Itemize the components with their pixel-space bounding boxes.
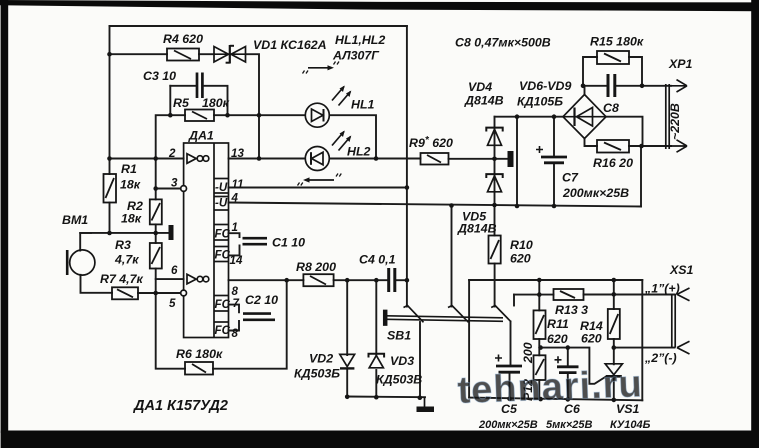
LED HL2 bbox=[305, 147, 329, 171]
wire R4 to VD1 bbox=[199, 53, 214, 55]
wire C1 lead pin14 bbox=[229, 246, 240, 256]
wire bridge left row bbox=[495, 116, 564, 118]
wire VS1 cathode to rail bbox=[613, 378, 615, 401]
wire VS1 gate run bbox=[541, 348, 606, 384]
svg-text:R13 3: R13 3 bbox=[555, 303, 588, 317]
wire +U vertical x407 bbox=[406, 26, 408, 307]
wire C1 lead pin1 bbox=[229, 233, 240, 237]
svg-text:4,7к: 4,7к bbox=[114, 253, 139, 267]
arrow HL1 emission 1 bbox=[332, 86, 345, 101]
resistor R12 bbox=[534, 355, 546, 380]
svg-text:R9* 620: R9* 620 bbox=[409, 135, 453, 150]
svg-text:VD3: VD3 bbox=[390, 354, 414, 368]
svg-text:-U: -U bbox=[215, 181, 228, 194]
wire left vertical to R1 bbox=[109, 26, 111, 174]
resistor R8 bbox=[303, 274, 333, 286]
wire vertical R5loop-pin2-pin3-R2 bbox=[156, 115, 171, 189]
wire VD1 right to corner bbox=[246, 54, 259, 158]
resistor R10 bbox=[489, 236, 501, 264]
capacitor C7 polarized bbox=[541, 157, 567, 163]
switch SB1 bar bbox=[384, 311, 503, 326]
wire R3 bottom / pin6 tap bbox=[155, 269, 157, 294]
wire R14 top lead bbox=[613, 280, 615, 309]
svg-text:~220В: ~220В bbox=[668, 103, 682, 140]
svg-text:„2”(-): „2”(-) bbox=[644, 351, 677, 365]
wire C8 row right bbox=[617, 85, 643, 87]
svg-text:С4 0,1: С4 0,1 bbox=[359, 253, 396, 267]
svg-text:620: 620 bbox=[581, 332, 602, 346]
wire bridge right corner down bbox=[606, 117, 643, 146]
connector XS1 bbox=[672, 288, 690, 354]
wire R9 right to terminator bbox=[449, 158, 508, 160]
wire R11 bottom R12 top bbox=[538, 339, 540, 355]
svg-text:„1”(+): „1”(+) bbox=[644, 282, 680, 296]
wire C6 top lead bbox=[567, 348, 569, 366]
svg-text:АЛ307Г: АЛ307Г bbox=[332, 49, 380, 63]
svg-text:HL2: HL2 bbox=[347, 145, 371, 159]
wire R16 right to XP1 pin2 bbox=[629, 145, 671, 147]
microphone BM1 bbox=[67, 250, 95, 275]
resistor R2 bbox=[150, 199, 162, 224]
plus sign C5 bbox=[495, 355, 502, 362]
svg-text:R16 20: R16 20 bbox=[593, 156, 633, 170]
wire R13 row stub left bbox=[513, 295, 515, 306]
wire R13 row bbox=[514, 294, 554, 296]
resistor R16 bbox=[597, 140, 629, 153]
diode VD3 bbox=[369, 354, 385, 368]
wire SB1 feed2 from bus bbox=[451, 206, 453, 307]
wire bridge top corner to C8 row bbox=[584, 86, 586, 95]
ground symbol bbox=[417, 397, 435, 412]
svg-text:3: 3 bbox=[171, 177, 178, 190]
resistor R3 bbox=[150, 243, 162, 269]
wire XP1 pin1 lead bbox=[642, 85, 671, 87]
wire R5 row left bbox=[170, 114, 185, 116]
svg-text:HL1: HL1 bbox=[351, 98, 375, 112]
capacitor C8 bbox=[608, 74, 615, 97]
wire R5 row right to HL1 row bbox=[214, 114, 305, 116]
switch SB1 blade 3 bbox=[491, 306, 511, 322]
svg-text:R10: R10 bbox=[510, 238, 533, 252]
svg-text:2: 2 bbox=[168, 147, 176, 160]
capacitor C6 polarized bbox=[557, 367, 579, 373]
wire SB1 contact1 output to rail bbox=[419, 322, 421, 398]
wire C4 right to vertical bbox=[397, 279, 407, 281]
wire vertical x517 bbox=[516, 117, 518, 206]
wire C2 lead pin7 bbox=[229, 305, 240, 313]
wire C3 top right bbox=[205, 86, 228, 115]
plus sign C6 bbox=[555, 356, 562, 363]
switch SB1 blade 2 bbox=[448, 306, 469, 323]
wire right vertical to rail bbox=[641, 280, 643, 400]
resistor R15 bbox=[597, 51, 629, 64]
svg-text:КД503В: КД503В bbox=[376, 373, 422, 387]
svg-text:tehnari.ru: tehnari.ru bbox=[457, 363, 644, 412]
svg-text:Д814В: Д814В bbox=[464, 94, 504, 108]
svg-text:180к: 180к bbox=[202, 96, 230, 110]
zener VD5 bbox=[486, 174, 502, 192]
capacitor C3 bbox=[197, 73, 202, 99]
svg-text:4: 4 bbox=[231, 192, 239, 205]
capacitor C1 bbox=[243, 238, 268, 244]
wire C7 bottom lead bbox=[553, 165, 555, 207]
svg-text:8: 8 bbox=[232, 327, 239, 340]
svg-text:HL1,HL2: HL1,HL2 bbox=[335, 33, 385, 47]
svg-text:VD4: VD4 bbox=[468, 80, 492, 94]
svg-text:FC: FC bbox=[215, 249, 231, 262]
wire R2 bottom to row bbox=[155, 224, 157, 243]
svg-text:14: 14 bbox=[230, 254, 243, 267]
svg-text:FC: FC bbox=[215, 298, 231, 311]
wire SB1 contact3 to C5 bbox=[510, 322, 512, 365]
frame top bbox=[0, 0, 759, 11]
resistor R11 bbox=[534, 310, 546, 339]
wire ground rail left bbox=[347, 396, 425, 399]
svg-text:620: 620 bbox=[510, 252, 531, 266]
wire R16 row from bridge bottom bbox=[585, 139, 598, 147]
wire C8 row left bbox=[583, 85, 607, 87]
wire VD3 column bottom bbox=[375, 370, 377, 397]
svg-text:7: 7 bbox=[233, 297, 240, 310]
wire pin11 row bbox=[229, 187, 407, 189]
svg-text:200: 200 bbox=[521, 342, 535, 364]
capacitor C4 bbox=[389, 268, 395, 292]
svg-text:R6 180к: R6 180к bbox=[176, 347, 223, 361]
wire VD2 column bottom bbox=[346, 370, 348, 397]
wire XS1 plus row bbox=[469, 279, 642, 281]
wire BM1 bottom lead bbox=[81, 275, 113, 293]
zener VD1 KC162A bidirectional bbox=[214, 45, 246, 64]
zener VD4 bbox=[486, 128, 502, 146]
terminator bar at VD4 node bbox=[508, 151, 514, 167]
junction dots bbox=[107, 52, 112, 57]
wire R13 row right to XS1 pin1 bbox=[584, 294, 675, 296]
pin 3 NC circle bbox=[181, 186, 187, 192]
svg-text:С3 10: С3 10 bbox=[143, 69, 176, 83]
wire R2 top lead bbox=[155, 189, 157, 200]
plus sign C7 bbox=[536, 146, 543, 153]
wire VD2 column top bbox=[346, 280, 348, 355]
wire bus end up to R16 node bbox=[640, 146, 642, 207]
wire C6 bottom lead bbox=[567, 374, 569, 399]
connector XP1 bbox=[666, 80, 687, 153]
svg-text:R15 180к: R15 180к bbox=[590, 35, 644, 49]
wire C2 lead pin8 bbox=[229, 321, 240, 331]
svg-text:200мк×25В: 200мк×25В bbox=[478, 419, 538, 431]
svg-text:VD2: VD2 bbox=[309, 352, 333, 366]
wire R6 right riser bbox=[213, 280, 287, 369]
wire C5 bottom lead bbox=[509, 374, 511, 399]
wire R10 bottom to SB1 bbox=[494, 264, 496, 307]
svg-text:R4 620: R4 620 bbox=[163, 32, 203, 46]
svg-text:R8 200: R8 200 bbox=[296, 260, 336, 274]
svg-text:С2 10: С2 10 bbox=[245, 293, 278, 307]
svg-text:FC: FC bbox=[215, 228, 231, 241]
wire bottom rail right bbox=[469, 398, 642, 401]
wire XS1 plus row left drop to rail bbox=[468, 280, 470, 398]
wire R7 to pin5 bbox=[138, 292, 181, 294]
wire R10 top lead bbox=[494, 205, 496, 236]
wire pin4 bus row bbox=[229, 203, 642, 207]
bridge rectifier VD6-VD9 bbox=[563, 95, 606, 139]
svg-text:18к: 18к bbox=[120, 178, 141, 192]
svg-text:R5: R5 bbox=[173, 96, 190, 110]
arrow HL2 emission 1 bbox=[332, 131, 345, 146]
svg-text:С8 0,47мк×500В: С8 0,47мк×500В bbox=[455, 36, 551, 50]
pin 5 NC circle bbox=[181, 290, 187, 296]
arrow HL1 emission 2 bbox=[339, 91, 352, 106]
arrow HL2 emission 2 bbox=[339, 136, 352, 151]
svg-text:13: 13 bbox=[231, 147, 244, 160]
svg-text:ВМ1: ВМ1 bbox=[62, 213, 88, 227]
wire R14 bottom to VS1 bbox=[613, 339, 615, 364]
wire R15 right vertical bbox=[629, 57, 642, 86]
wire top supply rail bbox=[110, 25, 407, 27]
wire R4 row left bbox=[110, 53, 168, 55]
svg-text:С7: С7 bbox=[562, 171, 579, 185]
resistor R9 bbox=[421, 153, 449, 165]
svg-text:620: 620 bbox=[547, 332, 568, 346]
wire pin8 row to R8 bbox=[229, 279, 304, 281]
wire R15 C8 left vertical bbox=[583, 57, 597, 86]
svg-text:R7 4,7к: R7 4,7к bbox=[100, 272, 144, 286]
thyristor VS1 bbox=[605, 364, 622, 377]
wire R11 top lead bbox=[538, 280, 540, 310]
wire pin13 to HL2 bbox=[229, 158, 305, 160]
wire R12 bottom lead bbox=[538, 380, 540, 399]
svg-text:1: 1 bbox=[232, 221, 238, 234]
resistor R4 bbox=[167, 49, 199, 61]
frame bottom bbox=[1, 431, 759, 448]
svg-text:5: 5 bbox=[169, 297, 176, 310]
op-amp symbol A1 bbox=[187, 154, 209, 164]
op-amp DA1 body bbox=[184, 143, 229, 338]
wire C3 top left bbox=[170, 85, 195, 87]
svg-text:11: 11 bbox=[232, 178, 244, 191]
resistor R7 bbox=[112, 287, 138, 299]
svg-text:С8: С8 bbox=[603, 101, 619, 115]
svg-text:ДА1 К157УД2: ДА1 К157УД2 bbox=[132, 398, 228, 414]
capacitor C2 bbox=[243, 314, 275, 320]
switch SB1 blade 1 bbox=[404, 306, 424, 323]
svg-text:Д814В: Д814В bbox=[457, 222, 497, 236]
wire VD3 column top bbox=[375, 280, 377, 355]
svg-text:VD1 КС162А: VD1 КС162А bbox=[253, 38, 327, 52]
frame right bbox=[751, 0, 759, 448]
svg-text:С1 10: С1 10 bbox=[272, 236, 305, 250]
arrow quote bottom bbox=[298, 174, 342, 186]
op-amp symbol A2 bbox=[187, 274, 209, 284]
svg-text:КУ104Б: КУ104Б bbox=[610, 419, 651, 431]
svg-text:200мк×25В: 200мк×25В bbox=[562, 186, 629, 200]
svg-text:VD6-VD9: VD6-VD9 bbox=[519, 79, 571, 93]
wire row R1/R2 interconnect y233 bbox=[80, 232, 168, 234]
wire pin3 stub bbox=[156, 188, 181, 190]
capacitor C5 polarized bbox=[496, 366, 522, 372]
resistor R14 bbox=[608, 309, 620, 339]
wire R6 loop left bbox=[156, 293, 185, 369]
svg-text:5мк×25В: 5мк×25В bbox=[546, 419, 592, 431]
svg-text:SB1: SB1 bbox=[387, 329, 411, 343]
svg-text:КД105Б: КД105Б bbox=[517, 95, 563, 109]
wire pin6 stub bbox=[156, 278, 184, 280]
wire XS1 minus row bbox=[614, 347, 675, 349]
svg-text:R1: R1 bbox=[121, 162, 137, 176]
svg-text:6: 6 bbox=[171, 264, 178, 277]
wire HL2 to R9 bbox=[330, 158, 421, 160]
svg-text:R11: R11 bbox=[547, 317, 569, 331]
resistor R1 bbox=[104, 174, 117, 203]
resistor R13 bbox=[554, 289, 584, 300]
svg-text:R3: R3 bbox=[115, 238, 131, 252]
svg-text:ХР1: ХР1 bbox=[668, 57, 693, 71]
svg-text:-U: -U bbox=[215, 197, 228, 210]
wire C7 top lead bbox=[553, 117, 555, 155]
wire R1 bottom to row bbox=[109, 203, 111, 234]
wire HL1 right corner down bbox=[330, 115, 376, 158]
resistor R5 bbox=[185, 110, 214, 122]
wire VD4 VD5 column bbox=[494, 117, 496, 205]
resistor R6 bbox=[185, 362, 213, 375]
terminator bar at R2 node bbox=[169, 225, 174, 240]
wire BM1 top lead bbox=[80, 233, 91, 251]
wire C3 R5 loop left vertical bbox=[169, 86, 171, 115]
svg-text:FC: FC bbox=[215, 324, 231, 337]
diode VD2 bbox=[340, 354, 355, 368]
svg-text:КД503Б: КД503Б bbox=[294, 367, 340, 381]
LED HL1 bbox=[305, 103, 329, 127]
svg-text:ДА1: ДА1 bbox=[188, 129, 214, 143]
wire R8 to C4 bbox=[334, 279, 387, 281]
frame left bbox=[1, 0, 9, 433]
wire pin2 stub bbox=[110, 158, 184, 160]
arrow quote top bbox=[303, 62, 340, 74]
svg-text:XS1: XS1 bbox=[669, 263, 694, 277]
svg-text:18к: 18к bbox=[121, 212, 142, 226]
